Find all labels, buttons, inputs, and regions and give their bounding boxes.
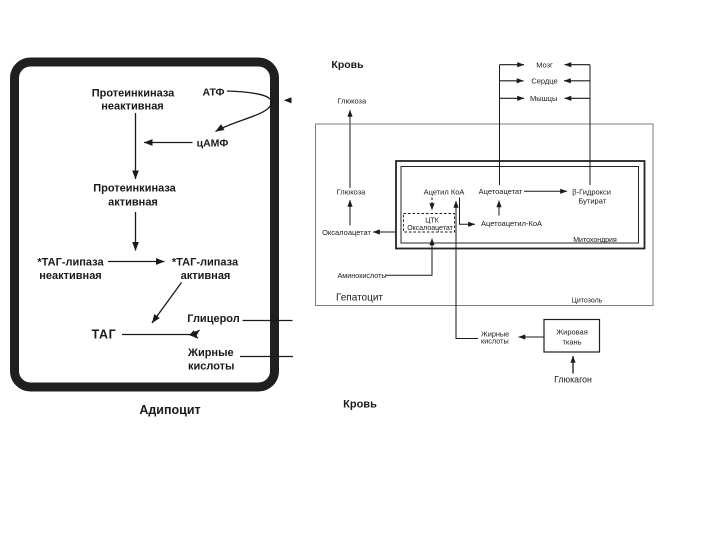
svg-text:ТАГ: ТАГ [92, 328, 117, 342]
dashed arrow acetyl-CoA to TCA [431, 198, 433, 211]
arrow adipose tissue to fatty acids [519, 336, 544, 338]
arrow protein kinase inactive to active [135, 113, 137, 179]
svg-text:Цитозоль: Цитозоль [572, 298, 603, 305]
arrow to muscles [500, 97, 525, 99]
svg-text:активная: активная [108, 197, 158, 209]
dashed box TCA cycle [404, 214, 455, 233]
curved arrow ATP to cAMP via membrane [216, 91, 272, 132]
svg-text:β-Гидрокси: β-Гидрокси [572, 188, 611, 197]
arrow fork to glycerol [194, 330, 200, 335]
arrow from BHB to brain [565, 64, 591, 66]
svg-text:Жирные: Жирные [187, 347, 234, 359]
svg-text:цАМФ: цАМФ [197, 137, 229, 149]
svg-text:Ацетоацетил-КоА: Ацетоацетил-КоА [481, 219, 542, 228]
svg-text:Мозг: Мозг [536, 60, 553, 69]
svg-text:Митохондрия: Митохондрия [573, 237, 617, 244]
arrow from BHB to heart [564, 80, 590, 82]
svg-text:Жировая: Жировая [556, 328, 588, 337]
svg-text:Гепатоцит: Гепатоцит [336, 293, 383, 304]
mitochondria outer membrane [396, 161, 645, 249]
arrow to heart [500, 80, 524, 82]
svg-text:Бутират: Бутират [578, 196, 606, 205]
text: Жировая ткань [556, 328, 588, 347]
diagonal arrow lipase acts on TAG [152, 283, 182, 324]
text: Протеинкиназа неактивная [92, 88, 175, 113]
svg-text:Ацетоацетат: Ацетоацетат [479, 187, 523, 196]
arrow acetoacetate to beta-hydroxybutyrate [524, 190, 567, 192]
arrow to brain [500, 64, 525, 66]
arrow fork to fatty acids [194, 335, 198, 339]
svg-text:*ТАГ-липаза: *ТАГ-липаза [172, 257, 239, 269]
wire acetoacetate to blood (left vertical) [499, 65, 501, 185]
wire fatty acid export [240, 356, 293, 358]
svg-text:Глицерол: Глицерол [187, 313, 239, 325]
arrow glucose leaves hepatocyte [349, 110, 351, 188]
text: Жирные кислоты (blood) [481, 330, 509, 346]
text: Жирные кислоты (adipocyte) [187, 347, 234, 373]
wire BHB to blood (right vertical) [589, 65, 591, 185]
arrow TAG-lipase inactive to active [108, 261, 165, 263]
svg-text:активная: активная [181, 270, 231, 282]
arrow from BHB to muscles [565, 97, 591, 99]
wire glycerol export [243, 320, 293, 322]
svg-text:кислоты: кислоты [188, 361, 234, 373]
arrow cAMP to protein kinase [144, 142, 193, 144]
svg-text:неактивная: неактивная [101, 101, 163, 113]
wire+arrow amino acids to TCA [386, 239, 432, 276]
arrow acetoacetyl-CoA to acetoacetate [498, 201, 500, 216]
svg-text:АТФ: АТФ [202, 87, 224, 99]
svg-text:кислоты: кислоты [481, 337, 509, 346]
arrow protein kinase active down [135, 212, 137, 251]
wire+arrow fatty acids to acetyl-CoA (beta oxidation) [456, 201, 478, 339]
text: Протеинкиназа активная [93, 183, 176, 209]
hormone arrowhead outside membrane [284, 97, 292, 103]
arrow oxaloacetate to glucose [349, 200, 351, 226]
svg-text:ЦТК: ЦТК [425, 218, 439, 225]
svg-text:Протеинкиназа: Протеинкиназа [93, 183, 176, 195]
hepatocyte outline [316, 124, 654, 306]
svg-text:Сердце: Сердце [531, 76, 557, 85]
svg-text:Оксалоацетат: Оксалоацетат [407, 225, 453, 232]
svg-text:Глюкагон: Глюкагон [554, 375, 592, 385]
svg-text:Глюкоза: Глюкоза [337, 188, 367, 197]
svg-text:Оксалоацетат: Оксалоацетат [322, 228, 371, 237]
svg-text:Кровь: Кровь [343, 399, 377, 411]
svg-text:*ТАГ-липаза: *ТАГ-липаза [37, 257, 104, 269]
adipocyte membrane [15, 62, 275, 387]
text: ТАГ-липаза активная [172, 257, 239, 283]
svg-text:Мышцы: Мышцы [530, 94, 557, 103]
mitochondria inner membrane [401, 167, 639, 244]
svg-text:Аминокислоты: Аминокислоты [338, 271, 387, 280]
wire TAG hydrolysis line [122, 334, 195, 336]
text: ТАГ-липаза неактивная [37, 257, 104, 283]
svg-text:Кровь: Кровь [331, 59, 364, 71]
svg-text:Глюкоза: Глюкоза [337, 96, 367, 105]
svg-text:ткань: ткань [562, 338, 581, 347]
svg-text:Ацетил КоА: Ацетил КоА [424, 188, 465, 197]
svg-text:неактивная: неактивная [39, 270, 101, 282]
box Жировая ткань [544, 320, 600, 353]
svg-text:Адипоцит: Адипоцит [139, 403, 200, 417]
text: beta-Гидрокси бутират [572, 188, 611, 206]
svg-text:Протеинкиназа: Протеинкиназа [92, 88, 175, 100]
arrow oxaloacetate export from mitochondria [373, 231, 397, 233]
wire+arrow acetyl-CoA to acetoacetyl-CoA [460, 198, 476, 225]
arrow glucagon to adipose tissue [572, 356, 574, 374]
